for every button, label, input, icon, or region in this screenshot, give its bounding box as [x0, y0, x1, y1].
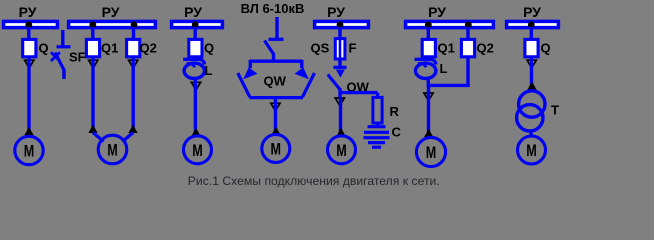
QW right blade (scheme 4) — [303, 73, 315, 97]
svg-text:Q2: Q2 — [140, 40, 157, 55]
label QS (scheme 5) — [311, 40, 330, 55]
wire Q2 down (scheme 6) — [466, 58, 469, 86]
motor M (scheme 2) — [98, 135, 127, 164]
svg-text:М: М — [107, 141, 118, 160]
wire diagonal left to motor (scheme 2) — [93, 133, 104, 142]
QW plug arrow (scheme 5) — [336, 70, 345, 78]
wire bus to Q1 (scheme 2) — [91, 27, 94, 40]
wire bus to fuse (scheme 5) — [338, 27, 341, 40]
svg-text:РУ: РУ — [428, 4, 446, 20]
svg-text:Q: Q — [39, 40, 49, 55]
label L (scheme 3) — [205, 63, 213, 78]
svg-text:Рис.1 Схемы подключения двигат: Рис.1 Схемы подключения двигателя к сети… — [188, 174, 440, 188]
svg-text:РУ: РУ — [102, 4, 120, 20]
QW fixed contact tick (scheme 5) — [334, 66, 347, 69]
busbar РУ (scheme 7) — [507, 21, 559, 27]
contact mark below QW (scheme 4) — [271, 103, 280, 111]
arrow at motor (scheme 3) — [191, 128, 200, 136]
svg-text:F: F — [349, 40, 357, 55]
arrow at motor (scheme 6) — [424, 129, 433, 137]
breaker SF lower wire — [62, 69, 65, 79]
motor M (scheme 1) — [15, 136, 43, 164]
svg-text:РУ: РУ — [327, 4, 345, 20]
QW left drop (scheme 4) — [249, 60, 252, 68]
breaker SF cross mark — [51, 52, 60, 61]
disconnector blade (scheme 4) — [265, 41, 274, 55]
wire QW to motor (scheme 4) — [274, 97, 277, 133]
arrow right branch (scheme 2) — [128, 125, 137, 133]
svg-text:РУ: РУ — [184, 4, 202, 20]
breaker SF fixed contact tick — [57, 45, 71, 48]
QW right drop (scheme 4) — [300, 60, 303, 68]
wire junction below QW (scheme 5) — [338, 88, 341, 97]
svg-text:ВЛ 6-10кВ: ВЛ 6-10кВ — [241, 1, 305, 16]
net label РУ (scheme 3) — [184, 4, 202, 20]
reactor L (scheme 3) — [183, 59, 204, 78]
wire bus to Q2 (scheme 6) — [466, 27, 469, 40]
svg-text:C: C — [392, 125, 402, 140]
contact mark below L (scheme 3) — [191, 82, 200, 90]
net label РУ (scheme 1) — [19, 4, 37, 20]
circuit breaker Q2 (scheme 2) — [127, 39, 140, 56]
disconnector lower wire (scheme 4) — [272, 53, 275, 61]
wire fuse to QW (scheme 5) — [338, 58, 341, 67]
net label ВЛ 6-10кВ — [241, 1, 305, 16]
wire to motor (scheme 6) — [427, 87, 430, 135]
svg-text:Q: Q — [541, 40, 551, 55]
svg-text:L: L — [205, 63, 213, 78]
svg-text:М: М — [24, 142, 35, 161]
wire L to junction (scheme 6) — [427, 79, 430, 87]
QW bottom bar (scheme 4) — [250, 96, 304, 99]
svg-text:М: М — [426, 143, 437, 162]
contact mark below QW (scheme 5) — [335, 98, 344, 106]
svg-text:T: T — [551, 103, 559, 118]
reactor L (scheme 6) — [415, 59, 436, 78]
node junction dot (scheme 1) — [25, 21, 32, 28]
transformer T winding 2 (scheme 7) — [517, 105, 543, 131]
svg-text:SF: SF — [69, 50, 86, 65]
ground line 1 (scheme 5) — [364, 136, 390, 139]
QW blade (scheme 5) — [328, 75, 340, 90]
motor M (scheme 4) — [262, 135, 290, 163]
contact mark below Q (scheme 1) — [25, 60, 34, 68]
QW left blade (scheme 4) — [238, 73, 250, 97]
wire branch to R (scheme 5) — [339, 93, 378, 98]
wire to motor (scheme 5) — [339, 97, 342, 134]
contact mark below junction (scheme 6) — [424, 93, 433, 101]
node junction dot Q2 (scheme 6) — [465, 21, 472, 28]
label SF — [69, 50, 86, 65]
svg-text:М: М — [336, 141, 347, 160]
net label РУ (scheme 2) — [102, 4, 120, 20]
wire Q2 down (scheme 2) — [131, 58, 134, 133]
svg-text:М: М — [526, 141, 537, 160]
motor M (scheme 3) — [184, 136, 212, 164]
motor M (scheme 7) — [518, 136, 546, 164]
breaker SF blade — [55, 53, 64, 71]
arrow at transformer (scheme 7) — [527, 82, 536, 90]
wire diagonal right to motor (scheme 2) — [123, 133, 134, 142]
svg-text:РУ: РУ — [523, 4, 541, 20]
arrow at motor (scheme 5) — [336, 128, 345, 136]
svg-text:L: L — [440, 61, 448, 76]
incoming line ВЛ wire — [275, 17, 278, 39]
wire R to C (scheme 5) — [376, 123, 379, 126]
busbar РУ (scheme 3) — [172, 21, 223, 27]
arrow at motor (scheme 1) — [24, 127, 33, 135]
wire junction Q2 to Q1 branch (scheme 6) — [427, 84, 470, 87]
capacitor C plate 1 (scheme 5) — [368, 125, 386, 128]
circuit breaker Q2 (scheme 6) — [461, 39, 474, 56]
motor M (scheme 6) — [416, 137, 445, 166]
node junction dot Q2 (scheme 2) — [131, 21, 138, 28]
circuit breaker Q (scheme 3) — [189, 39, 202, 56]
contact mark below Q1 (scheme 2) — [89, 60, 98, 68]
svg-text:R: R — [390, 104, 400, 119]
label Q (scheme 1) — [39, 40, 49, 55]
net label РУ (scheme 7) — [523, 4, 541, 20]
caption Рис.1 — [188, 174, 440, 188]
fuse F (scheme 5) — [335, 37, 345, 60]
label C (scheme 5) — [392, 125, 402, 140]
busbar РУ (scheme 1) — [4, 21, 58, 27]
label Q (scheme 7) — [541, 40, 551, 55]
label F (scheme 5) — [349, 40, 357, 55]
breaker SF wire from bus — [61, 30, 64, 46]
wire Q1 down (scheme 2) — [91, 58, 94, 133]
svg-text:Q2: Q2 — [477, 40, 494, 55]
motor M (scheme 5) — [328, 136, 356, 164]
wire Q to motor (scheme 1) — [27, 58, 30, 133]
wire bus to Q (scheme 7) — [530, 27, 533, 40]
label Q1 (scheme 6) — [438, 40, 455, 55]
label R (scheme 5) — [390, 104, 400, 119]
transformer T winding 1 (scheme 7) — [519, 91, 545, 117]
label Q2 (scheme 6) — [477, 40, 494, 55]
label QW (scheme 5) — [347, 80, 370, 95]
arrow left branch (scheme 2) — [88, 125, 97, 133]
svg-text:М: М — [271, 140, 282, 159]
disconnector fixed contact tick (scheme 4) — [269, 38, 284, 41]
contact mark below Q2 (scheme 2) — [129, 60, 138, 68]
label QW (scheme 4) — [264, 74, 287, 89]
svg-text:QW: QW — [264, 74, 287, 89]
label Q2 (scheme 2) — [140, 40, 157, 55]
label Q (scheme 3) — [204, 40, 214, 55]
svg-text:Q1: Q1 — [101, 40, 118, 55]
node junction dot Q1 (scheme 2) — [89, 21, 96, 28]
label T (scheme 7) — [551, 103, 559, 118]
arrow at motor (scheme 4) — [271, 127, 280, 135]
wire bus to Q2 (scheme 2) — [132, 27, 135, 40]
wire bus to Q (scheme 3) — [193, 27, 196, 40]
circuit breaker Q1 (scheme 6) — [422, 39, 435, 56]
net label РУ (scheme 6) — [428, 4, 446, 20]
node junction dot Q1 (scheme 6) — [425, 21, 432, 28]
capacitor C plate 2 (scheme 5) — [364, 131, 389, 134]
wire transformer to motor (scheme 7) — [529, 130, 532, 137]
circuit breaker Q1 (scheme 2) — [86, 39, 99, 56]
QW right plug arrow (scheme 4) — [295, 67, 309, 79]
wire L to motor (scheme 3) — [194, 80, 197, 134]
wire bus to Q (scheme 1) — [27, 27, 30, 40]
svg-text:QS: QS — [311, 40, 330, 55]
svg-text:РУ: РУ — [19, 4, 37, 20]
svg-text:М: М — [192, 141, 203, 160]
node junction dot (scheme 3) — [192, 21, 199, 28]
node junction dot (scheme 7) — [528, 21, 535, 28]
QW left plug arrow (scheme 4) — [243, 67, 257, 79]
resistor R (scheme 5) — [373, 97, 382, 123]
net label РУ (scheme 5) — [327, 4, 345, 20]
svg-text:Q: Q — [204, 40, 214, 55]
busbar РУ (scheme 5) — [315, 21, 369, 27]
contact mark below Q (scheme 7) — [527, 60, 536, 68]
svg-text:Q1: Q1 — [438, 40, 455, 55]
withdrawable unit QW top bar (scheme 4) — [250, 60, 303, 63]
ground line 3 (scheme 5) — [372, 146, 381, 149]
label Q1 (scheme 2) — [101, 40, 118, 55]
label L (scheme 6) — [440, 61, 448, 76]
circuit breaker Q (scheme 7) — [525, 39, 538, 56]
ground line 2 (scheme 5) — [368, 141, 385, 144]
wire bus to Q1 (scheme 6) — [427, 27, 430, 40]
node junction dot (scheme 5) — [337, 21, 344, 28]
busbar РУ (scheme 6) — [406, 21, 494, 27]
circuit breaker Q (scheme 1) — [23, 39, 36, 56]
wire Q to transformer (scheme 7) — [530, 58, 533, 86]
busbar РУ (scheme 2) — [69, 21, 156, 27]
